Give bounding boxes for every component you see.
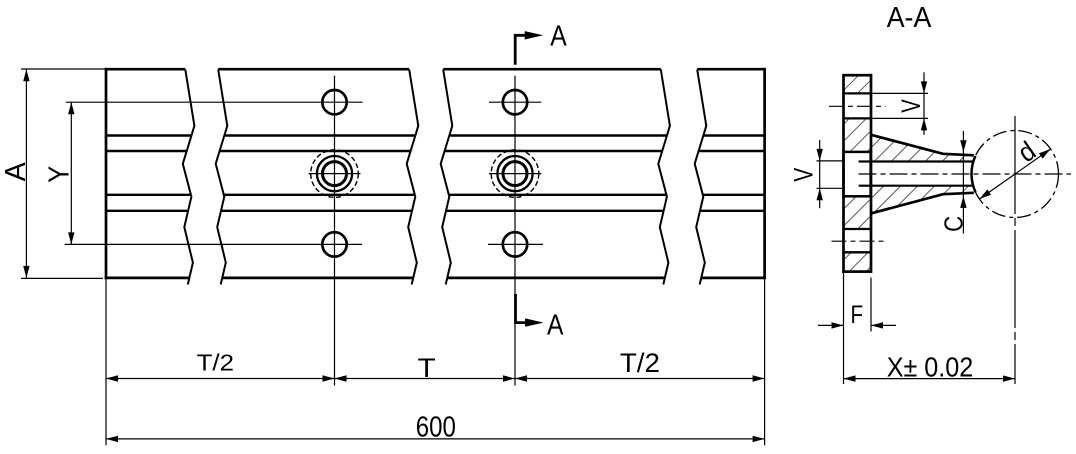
Y top extension line — [66, 101, 363, 103]
hole H4 — [503, 90, 527, 114]
dimension chain line — [106, 378, 765, 380]
rail left edge — [105, 68, 108, 279]
break line 1a — [183, 70, 195, 285]
dimension F extension right — [870, 278, 872, 332]
rib top outline — [871, 135, 974, 156]
rail right edge — [763, 68, 766, 279]
hole H4 centre line — [489, 101, 541, 103]
svg-text:X± 0.02: X± 0.02 — [887, 352, 974, 383]
dimension F line — [818, 324, 844, 326]
dimension V right line — [923, 72, 925, 135]
groove line 2 — [106, 150, 765, 152]
break line 1b — [216, 70, 228, 285]
extension line right — [764, 278, 766, 445]
through hole bottom line — [859, 185, 974, 187]
slot outline — [844, 152, 871, 196]
dimension A extension bottom — [21, 277, 103, 279]
cylinder end arc — [972, 156, 976, 192]
dimension V right extension top — [871, 92, 928, 94]
svg-text:V: V — [789, 168, 819, 182]
extension line column 1 — [334, 378, 336, 385]
hole H6 centre line — [488, 243, 543, 245]
hole column 1 centre line — [334, 76, 336, 379]
svg-text:A: A — [0, 162, 32, 181]
svg-text:V: V — [896, 99, 926, 113]
svg-text:T/2: T/2 — [620, 348, 660, 378]
section horizontal centre line — [859, 173, 1072, 175]
cylinder phantom circle — [972, 131, 1059, 218]
plate band line 3 — [844, 228, 872, 230]
break gap 2 — [407, 68, 453, 287]
break line 2b — [441, 70, 453, 285]
hole H6 — [503, 232, 527, 256]
Y bottom extension line — [65, 243, 362, 245]
svg-text:T: T — [418, 353, 436, 383]
break line 3a — [658, 70, 670, 285]
dimension V left extension bottom — [817, 187, 844, 189]
extension line left — [105, 278, 107, 445]
row1 centre line — [829, 105, 886, 107]
hole H5 with counterbore — [503, 162, 527, 186]
hole H2 with counterbore — [323, 162, 347, 186]
svg-text:Y: Y — [44, 166, 76, 183]
dimension V left line — [819, 140, 821, 208]
dimension X line — [844, 378, 1016, 380]
circle vertical centre line — [1014, 116, 1016, 384]
svg-text:C: C — [938, 216, 968, 232]
dimension A extension top — [21, 68, 106, 70]
rib bottom outline — [871, 193, 974, 214]
rib hatching upper — [871, 135, 974, 162]
through hole top line — [859, 160, 974, 162]
plate hatching band 1 — [844, 75, 872, 93]
hole H2 centre line — [309, 173, 361, 175]
extension line column 2 — [514, 378, 516, 385]
groove line 3 — [106, 194, 765, 196]
dimension C line — [962, 131, 964, 234]
section mark top — [515, 35, 526, 65]
break line 3b — [695, 70, 707, 285]
break gap 1 — [183, 68, 228, 287]
plate hatching band 2 — [844, 118, 872, 151]
plate hatching band 4 — [844, 252, 872, 271]
dimension Y line — [70, 102, 72, 244]
break gap 3 — [658, 68, 706, 287]
plate band line 1 — [844, 92, 872, 94]
section mark bottom — [516, 294, 527, 323]
plate outline — [844, 75, 872, 271]
svg-text:T/2: T/2 — [197, 349, 234, 375]
svg-text:A: A — [547, 309, 564, 341]
dimension A line — [25, 69, 27, 278]
rib hatching lower — [871, 186, 974, 214]
plate band line 2 — [844, 117, 872, 119]
svg-text:F: F — [851, 301, 864, 329]
groove line 1 — [106, 134, 765, 136]
dimension 600 line — [106, 438, 765, 440]
hole column 2 centre line — [514, 76, 516, 379]
dimension V left extension top — [817, 160, 844, 162]
svg-text:A: A — [550, 20, 567, 52]
plate hatching band 3 — [844, 196, 872, 229]
hole H1 — [322, 90, 346, 114]
svg-text:600: 600 — [416, 411, 456, 443]
plate band line 4 — [844, 251, 872, 253]
rail bottom edge — [105, 277, 766, 280]
hole H5 centre line — [489, 173, 541, 175]
dimension d arrow — [979, 149, 1050, 199]
groove line 4 — [106, 210, 765, 212]
dimension V right extension bottom — [871, 117, 928, 119]
dimension F extension left — [843, 272, 845, 384]
hole H3 — [322, 232, 346, 256]
rail top edge — [105, 68, 766, 71]
break line 2a — [407, 70, 419, 285]
svg-text:A-A: A-A — [887, 2, 932, 34]
row3 centre line — [832, 240, 885, 242]
